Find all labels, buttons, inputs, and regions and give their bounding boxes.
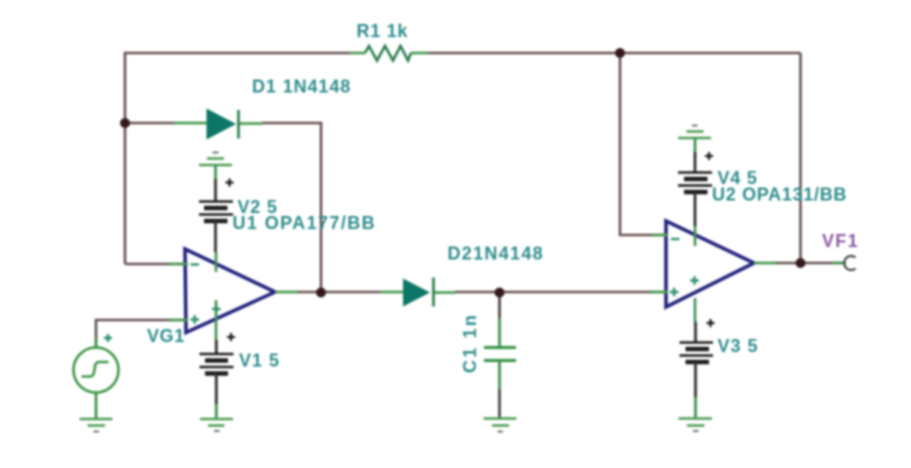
V1 plus marker: [227, 333, 235, 341]
V3 plates: [680, 343, 714, 356]
wire: D1 branch maroon segments: [125, 122, 176, 125]
svg-text:D1 1N4148: D1 1N4148: [252, 77, 351, 97]
wire: D1 cathode to U1 output vertical: [262, 123, 321, 292]
ground (up) above V4: [678, 132, 711, 139]
battery V2: [199, 153, 234, 253]
U2 plus input marker: [670, 288, 679, 297]
battery V4: [678, 126, 713, 227]
U1 plus input marker: [191, 315, 200, 324]
junction node D2 / C1: [495, 288, 505, 298]
V2 plates: [199, 202, 233, 215]
svg-text:V1 5: V1 5: [239, 351, 280, 371]
op-amp U1: [185, 249, 275, 333]
diode D1: [174, 109, 262, 140]
U2 minus marker: [671, 238, 680, 240]
wire: U2 inverting branch from top junction: [620, 53, 666, 235]
U1 supply plus marker: [212, 305, 221, 314]
V4 plates: [678, 173, 712, 186]
wire: U1 output main horizontal: [296, 291, 380, 294]
wire: top feedback net left vertical + top horizontal: [125, 53, 801, 264]
U1 input green stubs: [170, 264, 188, 320]
U1 supply pin stubs: [215, 252, 218, 340]
op-amp U2: [666, 221, 754, 307]
wire: VG1 to U1 + input: [96, 320, 186, 347]
capacitor C1: [484, 318, 517, 432]
svg-text:U2 OPA131/BB: U2 OPA131/BB: [712, 185, 847, 205]
U2 supply pin stubs: [694, 226, 697, 322]
V1 plates: [200, 354, 234, 367]
V2 plus marker: [226, 179, 234, 187]
svg-text:D21N4148: D21N4148: [448, 244, 544, 264]
U2 output green stub: [754, 262, 776, 265]
svg-text:C1 1n: C1 1n: [460, 313, 480, 373]
resistor R1: [350, 46, 428, 61]
wire: top right corner down to output node: [799, 53, 802, 263]
U1 output green stub: [275, 291, 298, 294]
U2 supply plus marker: [690, 276, 699, 285]
svg-text:R1 1k: R1 1k: [357, 21, 409, 41]
svg-text:VG1: VG1: [147, 326, 185, 346]
ground below VG1: [80, 419, 113, 426]
ground below C1: [484, 419, 517, 426]
generator VG1: [74, 334, 119, 432]
battery V1: [200, 333, 236, 431]
wire: inverting input U1: [125, 263, 186, 266]
battery V3: [679, 319, 715, 431]
svg-text:U1 OPA177/BB: U1 OPA177/BB: [233, 213, 377, 233]
svg-text:VF1: VF1: [822, 231, 859, 251]
ground below V3: [679, 419, 713, 426]
wire: C1 branch dark segments: [498, 292, 501, 318]
junction node top wire / U2 inv branch: [615, 48, 625, 58]
VG1 plus marker: [104, 334, 112, 342]
wire: U2 output: [774, 262, 832, 265]
U2 input green stubs: [650, 235, 668, 292]
svg-text:V3 5: V3 5: [718, 336, 759, 356]
ground (up) above V2: [199, 159, 232, 166]
output terminal VF1: [832, 256, 856, 270]
junction node U2 output / feedback: [796, 258, 806, 268]
junction node at feedback/D1: [120, 118, 130, 128]
junction node U1 output / D1 cathode: [316, 288, 326, 298]
V3 plus marker: [707, 319, 715, 327]
diode D2: [380, 278, 455, 307]
V4 plus marker: [705, 152, 713, 160]
ground below V1: [200, 419, 233, 426]
U1 minus marker: [191, 263, 200, 265]
